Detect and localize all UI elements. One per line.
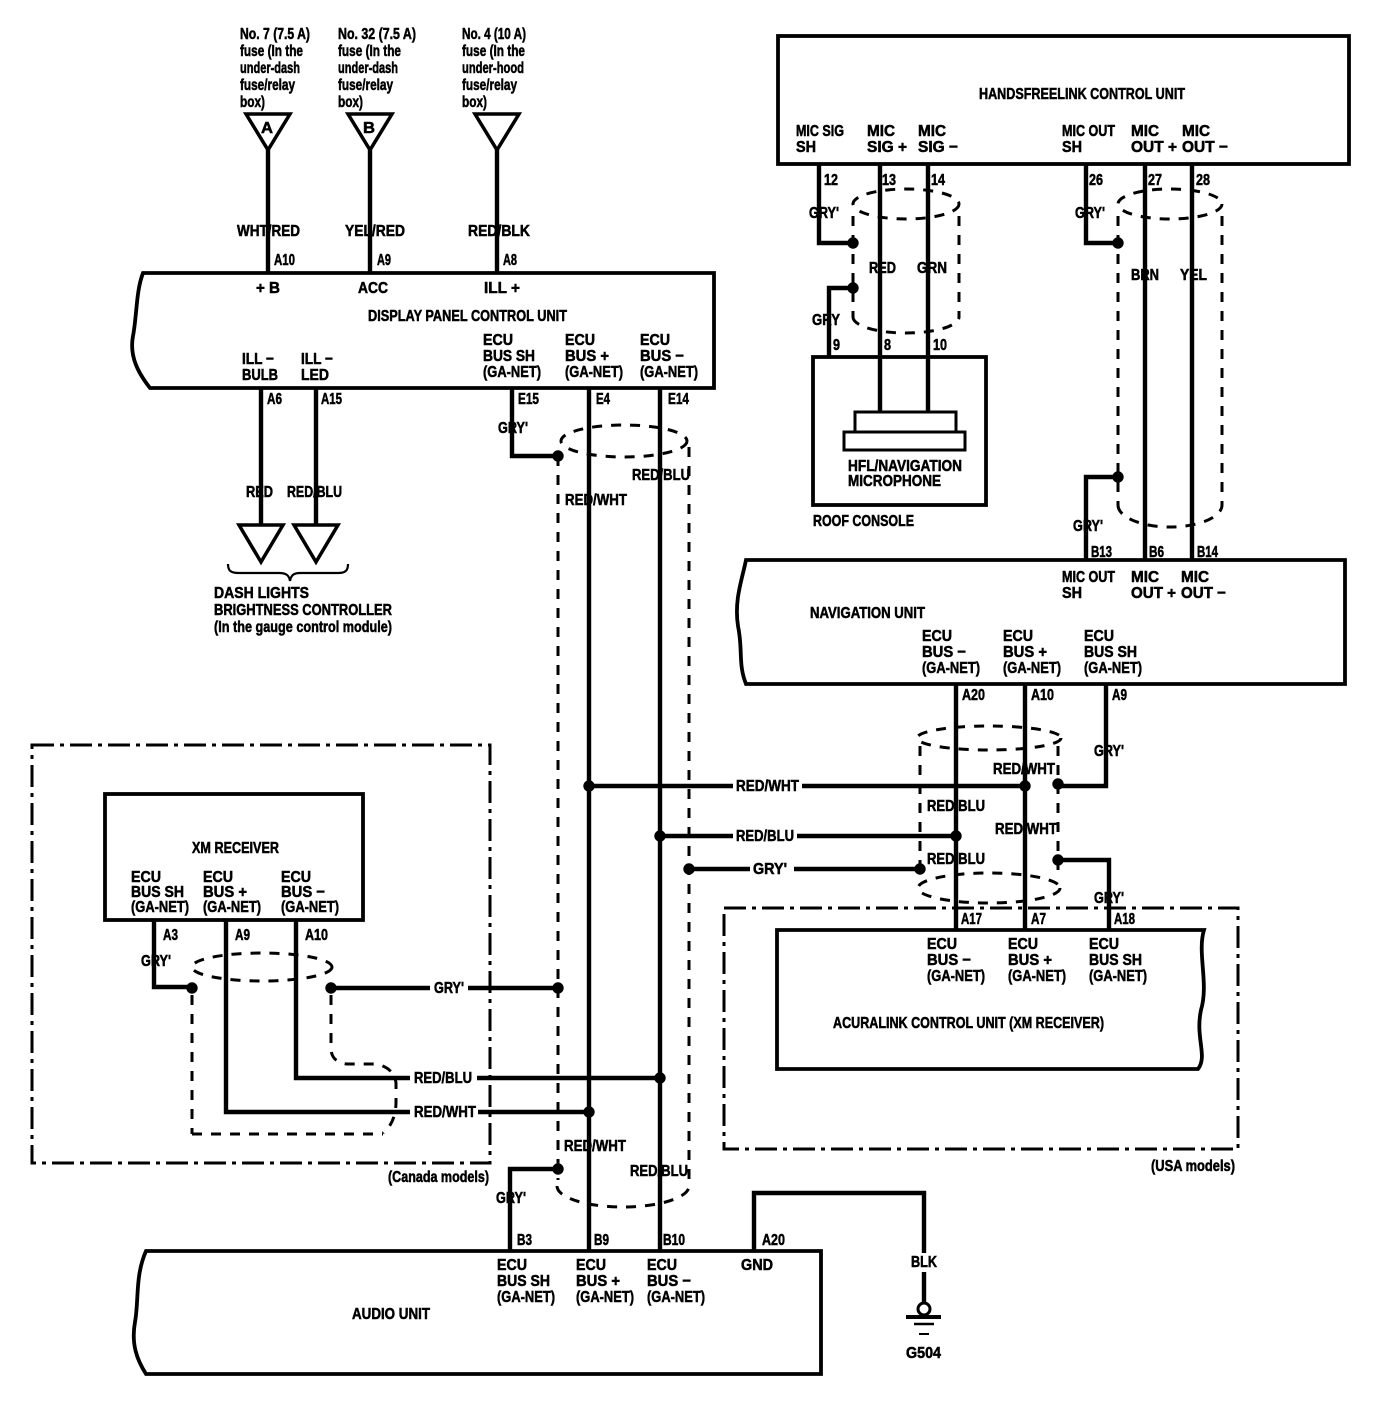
wire YEL pin28 to B14 bbox=[1190, 164, 1194, 559]
shield ellipse top bbox=[561, 425, 687, 457]
svg-text:MIC OUT: MIC OUT bbox=[1062, 569, 1115, 586]
svg-text:SH: SH bbox=[1062, 585, 1082, 602]
svg-text:A8: A8 bbox=[503, 252, 517, 269]
wire RED pin13 to mic bbox=[878, 164, 882, 412]
svg-text:ECU: ECU bbox=[1089, 936, 1119, 953]
svg-text:E15: E15 bbox=[518, 391, 539, 408]
svg-text:A: A bbox=[261, 120, 273, 137]
Canada models dash-dot border bbox=[32, 745, 490, 1163]
svg-text:fuse/relay: fuse/relay bbox=[240, 77, 295, 94]
connector arrow A15 bbox=[294, 525, 338, 562]
svg-text:ECU: ECU bbox=[922, 628, 952, 645]
svg-text:ECU: ECU bbox=[483, 332, 513, 349]
junction GRY / nav shield bbox=[914, 863, 925, 874]
svg-text:BUS SH: BUS SH bbox=[1089, 952, 1142, 969]
svg-text:E4: E4 bbox=[596, 391, 610, 408]
acuralink control unit box bbox=[777, 930, 1204, 1069]
shield drain dashed left bbox=[557, 456, 560, 1180]
wire GRY pin26 to shield bbox=[1086, 164, 1118, 243]
svg-text:(GA-NET): (GA-NET) bbox=[483, 364, 541, 381]
svg-text:E14: E14 bbox=[668, 391, 689, 408]
svg-text:NAVIGATION UNIT: NAVIGATION UNIT bbox=[810, 605, 925, 622]
svg-text:RED/BLK: RED/BLK bbox=[468, 223, 530, 240]
USA models dash-dot border bbox=[724, 908, 1238, 1149]
wire GRY pin12 to shield bbox=[819, 164, 853, 243]
svg-text:HANDSFREELINK CONTROL UNIT: HANDSFREELINK CONTROL UNIT bbox=[979, 86, 1185, 103]
svg-text:A9: A9 bbox=[235, 927, 250, 944]
svg-text:BUS SH: BUS SH bbox=[1084, 644, 1137, 661]
svg-text:BUS −: BUS − bbox=[647, 1273, 691, 1290]
wire GRY B3 to shield drain bbox=[510, 1169, 558, 1251]
svg-text:RED/BLU: RED/BLU bbox=[927, 798, 985, 815]
svg-text:RED/BLU: RED/BLU bbox=[927, 851, 985, 868]
svg-text:XM RECEIVER: XM RECEIVER bbox=[192, 840, 279, 857]
svg-text:ECU: ECU bbox=[640, 332, 670, 349]
svg-text:(GA-NET): (GA-NET) bbox=[565, 364, 623, 381]
svg-text:DISPLAY PANEL CONTROL UNIT: DISPLAY PANEL CONTROL UNIT bbox=[368, 308, 567, 325]
svg-text:BLK: BLK bbox=[911, 1254, 937, 1271]
svg-text:ILL −: ILL − bbox=[301, 351, 333, 368]
svg-text:GRY': GRY' bbox=[809, 205, 839, 222]
svg-text:box): box) bbox=[462, 94, 487, 111]
wire RED/WHT bus link bbox=[589, 784, 1025, 788]
svg-text:MIC: MIC bbox=[1131, 569, 1159, 586]
svg-text:MICROPHONE: MICROPHONE bbox=[848, 473, 941, 490]
svg-text:RED/BLU: RED/BLU bbox=[630, 1163, 688, 1180]
wire RED/WHT A9 to bus bbox=[226, 920, 589, 1112]
svg-text:YEL/RED: YEL/RED bbox=[345, 223, 405, 240]
svg-text:A7: A7 bbox=[1031, 911, 1046, 928]
svg-text:A18: A18 bbox=[1114, 911, 1135, 928]
svg-text:GRY': GRY' bbox=[141, 953, 171, 970]
junction GRY A9 / shield bbox=[1052, 778, 1063, 789]
svg-text:(GA-NET): (GA-NET) bbox=[640, 364, 698, 381]
svg-text:GRY': GRY' bbox=[496, 1190, 526, 1207]
connector arrow A6 bbox=[239, 525, 283, 562]
svg-text:A3: A3 bbox=[163, 927, 178, 944]
mic sig shield ellipse top bbox=[853, 189, 959, 219]
svg-text:fuse (In the: fuse (In the bbox=[240, 43, 303, 60]
svg-text:SIG +: SIG + bbox=[867, 139, 907, 156]
svg-text:(GA-NET): (GA-NET) bbox=[1003, 660, 1061, 677]
svg-text:10: 10 bbox=[933, 337, 947, 354]
svg-text:RED/WHT: RED/WHT bbox=[993, 761, 1055, 778]
svg-text:RED/WHT: RED/WHT bbox=[995, 821, 1057, 838]
fuse A symbol bbox=[246, 114, 290, 150]
svg-text:SH: SH bbox=[796, 139, 816, 156]
junction GRY A18 / shield bbox=[1052, 854, 1063, 865]
svg-text:fuse (In the: fuse (In the bbox=[338, 43, 401, 60]
junction GRY pin12 / shield bbox=[847, 237, 858, 248]
svg-text:A10: A10 bbox=[1031, 687, 1054, 704]
svg-text:13: 13 bbox=[882, 172, 896, 189]
svg-text:BRN: BRN bbox=[1131, 267, 1159, 284]
svg-text:ECU: ECU bbox=[576, 1257, 606, 1274]
junction GRY A3 / shield bbox=[186, 982, 197, 993]
junction GRY B13 / shield bbox=[1112, 471, 1123, 482]
svg-text:under-dash: under-dash bbox=[240, 60, 300, 77]
svg-text:box): box) bbox=[338, 94, 363, 111]
svg-text:(GA-NET): (GA-NET) bbox=[131, 899, 189, 916]
svg-text:MIC: MIC bbox=[1181, 569, 1209, 586]
svg-text:GRY': GRY' bbox=[1094, 890, 1124, 907]
audio unit box bbox=[134, 1251, 821, 1374]
svg-text:BUS SH: BUS SH bbox=[497, 1273, 550, 1290]
svg-text:WHT/RED: WHT/RED bbox=[237, 223, 300, 240]
mic out shield dashed left bbox=[1117, 216, 1120, 505]
svg-text:A10: A10 bbox=[274, 252, 295, 269]
svg-text:27: 27 bbox=[1148, 172, 1162, 189]
nav shield ellipse top bbox=[917, 726, 1061, 750]
svg-text:OUT +: OUT + bbox=[1131, 585, 1176, 602]
svg-text:14: 14 bbox=[931, 172, 945, 189]
wire GRN pin14 to mic bbox=[926, 164, 930, 412]
svg-text:RED/WHT: RED/WHT bbox=[565, 492, 627, 509]
svg-text:GND: GND bbox=[741, 1257, 773, 1274]
svg-text:No. 4 (10 A): No. 4 (10 A) bbox=[462, 26, 526, 43]
svg-text:A9: A9 bbox=[377, 252, 391, 269]
junction RED/BLU A20 bbox=[950, 830, 961, 841]
junction RED/WHT bus bbox=[583, 780, 594, 791]
svg-text:ILL +: ILL + bbox=[484, 280, 520, 297]
svg-text:+ B: + B bbox=[256, 280, 280, 297]
svg-text:(USA models): (USA models) bbox=[1151, 1158, 1235, 1175]
svg-text:BUS +: BUS + bbox=[565, 348, 609, 365]
svg-text:A9: A9 bbox=[1112, 687, 1127, 704]
svg-text:RED/WHT: RED/WHT bbox=[414, 1104, 476, 1121]
xm shield dashed bottom bbox=[192, 1133, 383, 1136]
svg-text:(GA-NET): (GA-NET) bbox=[1089, 968, 1147, 985]
svg-text:RED: RED bbox=[869, 260, 896, 277]
svg-text:(GA-NET): (GA-NET) bbox=[922, 660, 980, 677]
svg-text:BULB: BULB bbox=[242, 367, 278, 384]
junction GRY / shield drain bbox=[552, 982, 563, 993]
svg-text:A6: A6 bbox=[267, 391, 282, 408]
wire GRY shield to bus shield bbox=[331, 986, 558, 990]
nav shield dashed right bbox=[1057, 746, 1060, 874]
wire BLK A20 to ground bbox=[754, 1193, 924, 1303]
junction GRY B3 / shield drain bbox=[552, 1163, 563, 1174]
svg-text:B: B bbox=[363, 120, 375, 137]
svg-text:(GA-NET): (GA-NET) bbox=[1084, 660, 1142, 677]
svg-text:GRY': GRY' bbox=[1094, 743, 1124, 760]
wire GRY shield link bbox=[689, 867, 920, 871]
svg-text:ACURALINK CONTROL UNIT (XM REC: ACURALINK CONTROL UNIT (XM RECEIVER) bbox=[833, 1015, 1104, 1032]
svg-text:SIG −: SIG − bbox=[918, 139, 958, 156]
fuse No.4 symbol bbox=[475, 114, 519, 150]
svg-text:MIC SIG: MIC SIG bbox=[796, 123, 844, 140]
svg-text:A15: A15 bbox=[321, 391, 342, 408]
nav shield ellipse bottom bbox=[918, 873, 1060, 903]
microphone body base bbox=[844, 432, 965, 450]
svg-text:GRY': GRY' bbox=[1073, 518, 1103, 535]
wire RED/WHT bus E4 to B9 bbox=[587, 388, 591, 1251]
svg-text:RED/BLU: RED/BLU bbox=[287, 484, 342, 501]
svg-text:ILL −: ILL − bbox=[242, 351, 274, 368]
junction GRY / shield bbox=[325, 982, 336, 993]
svg-text:YEL: YEL bbox=[1180, 267, 1207, 284]
shield arc bottom bbox=[557, 1186, 689, 1207]
svg-text:B10: B10 bbox=[663, 1232, 685, 1249]
wire RED/BLU bus E14 to B10 bbox=[658, 388, 662, 1251]
svg-text:RED: RED bbox=[246, 484, 273, 501]
junction GRY / shield right bbox=[683, 863, 694, 874]
mic sig shield dashed left bbox=[852, 216, 855, 317]
svg-text:fuse/relay: fuse/relay bbox=[462, 77, 517, 94]
svg-text:(Canada models): (Canada models) bbox=[388, 1169, 489, 1186]
svg-text:OUT −: OUT − bbox=[1181, 585, 1226, 602]
svg-text:MIC OUT: MIC OUT bbox=[1062, 123, 1115, 140]
junction RED/WHT A10 bbox=[1019, 780, 1030, 791]
mic sig shield dashed right bbox=[958, 216, 961, 317]
svg-text:MIC: MIC bbox=[918, 123, 946, 140]
wire RED/BLU from A15 bbox=[314, 388, 318, 525]
svg-text:(GA-NET): (GA-NET) bbox=[647, 1289, 705, 1306]
svg-text:9: 9 bbox=[833, 337, 840, 354]
handsfreelink control unit box bbox=[778, 36, 1349, 164]
wire GRY A9 to shield bbox=[1058, 684, 1106, 786]
junction E15 GRY / shield bbox=[552, 450, 563, 461]
svg-text:DASH LIGHTS: DASH LIGHTS bbox=[214, 585, 309, 602]
junction RED/WHT bus bbox=[583, 1106, 594, 1117]
roof console box bbox=[813, 357, 986, 505]
svg-text:ECU: ECU bbox=[497, 1257, 527, 1274]
svg-text:GRY': GRY' bbox=[498, 420, 528, 437]
svg-text:ECU: ECU bbox=[927, 936, 957, 953]
display panel control unit box bbox=[132, 273, 714, 388]
wire RED/BLU A20 to A17 bbox=[954, 684, 958, 930]
svg-text:ECU: ECU bbox=[1084, 628, 1114, 645]
xm shield dashed right bbox=[331, 995, 396, 1133]
svg-text:BUS −: BUS − bbox=[927, 952, 971, 969]
mic out shield dashed right bbox=[1221, 216, 1224, 505]
wire BRN pin27 to B6 bbox=[1143, 164, 1147, 559]
wire WHT/RED fuse A to A10 bbox=[266, 150, 270, 273]
svg-text:(GA-NET): (GA-NET) bbox=[203, 899, 261, 916]
svg-text:No. 32 (7.5 A): No. 32 (7.5 A) bbox=[338, 26, 416, 43]
svg-text:A17: A17 bbox=[961, 911, 982, 928]
svg-text:SH: SH bbox=[1062, 139, 1082, 156]
svg-text:BUS SH: BUS SH bbox=[483, 348, 535, 365]
svg-text:(In the gauge control module): (In the gauge control module) bbox=[214, 619, 392, 636]
svg-text:(GA-NET): (GA-NET) bbox=[1008, 968, 1066, 985]
svg-text:GRN: GRN bbox=[917, 260, 947, 277]
svg-text:GRY': GRY' bbox=[434, 980, 464, 997]
wire YEL/RED fuse B to A9 bbox=[368, 150, 372, 273]
svg-text:RED/WHT: RED/WHT bbox=[736, 778, 799, 795]
svg-text:AUDIO UNIT: AUDIO UNIT bbox=[352, 1306, 430, 1323]
svg-text:ECU: ECU bbox=[1003, 628, 1033, 645]
svg-text:ECU: ECU bbox=[1008, 936, 1038, 953]
svg-text:BRIGHTNESS CONTROLLER: BRIGHTNESS CONTROLLER bbox=[214, 602, 392, 619]
xm shield dashed left bbox=[191, 995, 194, 1134]
svg-text:ROOF CONSOLE: ROOF CONSOLE bbox=[813, 513, 914, 530]
wire RED/BLK fuse No.4 to A8 bbox=[495, 150, 499, 273]
svg-text:OUT +: OUT + bbox=[1131, 139, 1177, 156]
svg-text:MIC: MIC bbox=[1131, 123, 1159, 140]
svg-text:RED/BLU: RED/BLU bbox=[414, 1070, 472, 1087]
mic sig shield arc bottom bbox=[853, 317, 959, 333]
svg-text:under-hood: under-hood bbox=[462, 60, 524, 77]
svg-text:GRY': GRY' bbox=[753, 861, 787, 878]
wire GRY A3 to shield bbox=[154, 920, 192, 987]
svg-text:MIC: MIC bbox=[1182, 123, 1210, 140]
svg-text:ACC: ACC bbox=[358, 280, 388, 297]
wire RED from A6 bbox=[259, 388, 263, 525]
nav shield dashed left bbox=[919, 746, 922, 874]
svg-text:GRY': GRY' bbox=[1075, 205, 1105, 222]
svg-text:28: 28 bbox=[1196, 172, 1210, 189]
svg-text:A10: A10 bbox=[305, 927, 328, 944]
svg-text:RED/BLU: RED/BLU bbox=[632, 467, 690, 484]
svg-text:B9: B9 bbox=[594, 1232, 609, 1249]
junction GRY pin9 / shield bbox=[847, 282, 858, 293]
svg-text:G504: G504 bbox=[906, 1345, 941, 1362]
xm shield ellipse top bbox=[192, 953, 332, 981]
svg-text:(GA-NET): (GA-NET) bbox=[497, 1289, 555, 1306]
wire GRY shield to B13 bbox=[1086, 477, 1118, 559]
svg-text:(GA-NET): (GA-NET) bbox=[281, 899, 339, 916]
svg-text:MIC: MIC bbox=[867, 123, 895, 140]
junction RED/BLU bus bbox=[654, 1072, 665, 1083]
svg-text:fuse (In the: fuse (In the bbox=[462, 43, 525, 60]
svg-text:BUS +: BUS + bbox=[1003, 644, 1047, 661]
svg-text:BUS +: BUS + bbox=[576, 1273, 620, 1290]
svg-text:No. 7 (7.5 A): No. 7 (7.5 A) bbox=[240, 26, 310, 43]
svg-text:LED: LED bbox=[301, 367, 329, 384]
wire GRY shield to A18 bbox=[1058, 860, 1109, 930]
svg-text:BUS +: BUS + bbox=[1008, 952, 1052, 969]
ground G504 symbol bbox=[918, 1303, 930, 1315]
wire RED/BLU A10 to bus bbox=[296, 920, 660, 1078]
svg-text:GRY: GRY bbox=[812, 312, 840, 329]
brace bbox=[228, 564, 348, 581]
svg-text:under-dash: under-dash bbox=[338, 60, 398, 77]
wire RED/WHT A10 to A7 bbox=[1023, 684, 1027, 930]
svg-text:BUS −: BUS − bbox=[640, 348, 684, 365]
microphone body top bbox=[855, 412, 956, 432]
mic out shield ellipse top bbox=[1118, 189, 1222, 219]
svg-text:A20: A20 bbox=[962, 687, 985, 704]
svg-text:(GA-NET): (GA-NET) bbox=[927, 968, 985, 985]
svg-text:A20: A20 bbox=[762, 1232, 785, 1249]
wire GRY shield to pin9 bbox=[829, 288, 853, 357]
fuse B symbol bbox=[348, 114, 392, 150]
mic out shield arc bottom bbox=[1118, 505, 1222, 527]
svg-text:BUS −: BUS − bbox=[922, 644, 966, 661]
svg-text:OUT −: OUT − bbox=[1182, 139, 1228, 156]
svg-text:ECU: ECU bbox=[647, 1257, 677, 1274]
junction GRY pin26 / shield bbox=[1112, 237, 1123, 248]
shield dashed right bbox=[688, 447, 691, 1186]
wire GRY from E15 bbox=[512, 388, 556, 456]
svg-text:RED/WHT: RED/WHT bbox=[564, 1138, 626, 1155]
svg-text:B3: B3 bbox=[517, 1232, 532, 1249]
svg-text:fuse/relay: fuse/relay bbox=[338, 77, 393, 94]
svg-text:box): box) bbox=[240, 94, 265, 111]
svg-text:(GA-NET): (GA-NET) bbox=[576, 1289, 634, 1306]
junction RED/BLU bus bbox=[654, 830, 665, 841]
svg-text:RED/BLU: RED/BLU bbox=[736, 828, 794, 845]
wire RED/BLU bus link bbox=[660, 834, 956, 838]
navigation unit box bbox=[737, 560, 1345, 684]
svg-text:12: 12 bbox=[824, 172, 838, 189]
svg-text:ECU: ECU bbox=[565, 332, 595, 349]
xm receiver box bbox=[105, 794, 363, 920]
svg-text:8: 8 bbox=[884, 337, 891, 354]
svg-text:26: 26 bbox=[1089, 172, 1103, 189]
